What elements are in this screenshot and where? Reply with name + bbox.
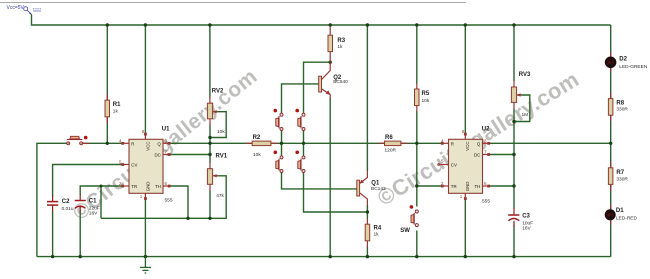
wire: output row U1.Q to U2.R	[169, 142, 442, 144]
svg-text:BC143: BC143	[371, 186, 386, 192]
push button key 4 (bottom-right of grid)	[295, 151, 305, 173]
wire: C3 bottom to ground rail	[513, 226, 515, 257]
push button key 1 (top-left of grid)	[274, 109, 284, 131]
svg-text:RV3: RV3	[519, 72, 531, 78]
svg-text:TH: TH	[474, 184, 480, 189]
svg-text:C1: C1	[89, 199, 97, 205]
wire: U2 TR row	[417, 185, 442, 187]
IC U1 555 timer	[119, 127, 173, 204]
wire: RV3 wiper loop	[514, 95, 530, 122]
svg-text:D2: D2	[619, 57, 627, 63]
wire: U2 DC to timing column	[489, 154, 514, 156]
svg-text:Q1: Q1	[371, 181, 380, 187]
wire: ground bottom rail	[37, 256, 611, 258]
svg-text:GND: GND	[146, 182, 151, 192]
svg-text:10k: 10k	[217, 129, 225, 135]
wire: U2 VCC column	[464, 25, 466, 134]
svg-text:R8: R8	[616, 101, 624, 107]
svg-text:10k: 10k	[253, 152, 261, 158]
svg-text:TR: TR	[131, 184, 137, 189]
svg-text:R6: R6	[385, 135, 393, 141]
resistor R3	[328, 27, 346, 63]
power terminal Vcc=5V	[7, 5, 42, 15]
IC U2 555 timer	[438, 127, 491, 205]
wire: Q1 emitter column to +5V rail	[366, 25, 368, 171]
watermark 1	[69, 65, 262, 225]
svg-text:R1: R1	[113, 102, 121, 108]
wire: U1 TR to C1	[80, 186, 122, 195]
svg-text:1k: 1k	[337, 44, 343, 50]
wire: U1 GND column	[144, 199, 146, 257]
sheet top border line	[0, 2, 466, 4]
resistor R8	[608, 93, 628, 121]
svg-text:R4: R4	[374, 226, 382, 232]
wire: Q1 collector node / R4 column	[366, 205, 368, 219]
svg-text:555: 555	[165, 198, 173, 204]
svg-text:R: R	[451, 141, 454, 146]
svg-text:R3: R3	[337, 38, 345, 44]
svg-text:16V: 16V	[89, 211, 98, 217]
push button key 3 (bottom-left of grid)	[274, 151, 284, 173]
wire: U2 GND column	[464, 199, 466, 257]
svg-text:R7: R7	[616, 170, 624, 176]
push button SW	[400, 205, 418, 234]
push button (reset, top-left)	[67, 136, 89, 145]
capacitor C3 (electrolytic)	[508, 208, 533, 232]
svg-text:1k: 1k	[113, 109, 119, 115]
svg-text:LED-GREEN: LED-GREEN	[619, 64, 648, 70]
wire: left ground loop vertical	[37, 143, 67, 256]
svg-text:R5: R5	[422, 91, 430, 97]
watermark 2	[373, 66, 583, 210]
resistor R1	[105, 94, 121, 124]
wire: U1 VCC column	[144, 25, 146, 134]
junctions on ground bottom rail	[51, 255, 516, 258]
svg-text:555: 555	[482, 199, 490, 205]
svg-text:D1: D1	[616, 208, 624, 214]
svg-text:R2: R2	[253, 135, 261, 141]
junctions on +5V top rail	[106, 23, 516, 26]
wire: RV2 wiper loop	[210, 112, 226, 138]
potentiometer RV1	[207, 154, 227, 200]
svg-text:10k: 10k	[422, 98, 430, 104]
wire: U2 output to LED node	[489, 142, 611, 144]
wire: U2 TH to timing column	[489, 185, 514, 187]
svg-text:DC: DC	[154, 153, 160, 158]
svg-text:CV: CV	[451, 163, 457, 168]
svg-text:47k: 47k	[216, 193, 224, 199]
capacitor C2	[47, 196, 74, 213]
resistor R2	[246, 135, 277, 158]
wire: C1 lower lead to ground rail	[79, 210, 81, 257]
svg-text:C3: C3	[522, 214, 530, 220]
resistor R4	[365, 219, 382, 248]
wire: +5V top rail	[32, 15, 611, 26]
svg-text:RV1: RV1	[216, 154, 228, 160]
junctions on output row	[106, 142, 613, 145]
wire: RV1 bottom lead	[209, 191, 211, 219]
svg-text:U2: U2	[482, 127, 490, 133]
svg-text:TH: TH	[155, 184, 161, 189]
wire: right supply column (D2/R8/R7/D1 string)	[610, 25, 612, 257]
svg-text:U1: U1	[162, 127, 170, 133]
wire: R1 column	[106, 25, 108, 143]
svg-text:0.01u: 0.01u	[62, 206, 74, 212]
svg-text:CV: CV	[131, 163, 137, 168]
svg-text:Q: Q	[477, 141, 481, 146]
svg-text:VCC: VCC	[465, 142, 470, 151]
svg-text:BC540: BC540	[333, 79, 348, 85]
svg-text:TR: TR	[451, 184, 457, 189]
ground symbol	[140, 257, 151, 273]
svg-text:SW: SW	[400, 228, 410, 234]
svg-text:1M: 1M	[522, 112, 529, 118]
potentiometer RV3	[511, 72, 531, 118]
svg-text:1k: 1k	[374, 232, 380, 238]
svg-text:LED-RED: LED-RED	[616, 216, 638, 222]
svg-text:120R: 120R	[385, 148, 397, 154]
svg-text:330R: 330R	[616, 177, 628, 183]
wire: SW bottom to ground rail	[416, 231, 418, 257]
wire: C2 lower lead to ground rail	[52, 211, 54, 257]
wire: RV3 bottom / timing column to C3	[513, 109, 515, 209]
wire: top-left key to Q2 base	[282, 84, 319, 114]
push button key 2 (top-right of grid)	[295, 109, 305, 131]
svg-text:16V: 16V	[522, 226, 531, 232]
svg-text:Vcc=5V: Vcc=5V	[7, 5, 25, 11]
svg-text:GND: GND	[465, 182, 470, 192]
LED D1 (red)	[605, 205, 638, 225]
wire: R5 / trigger column	[416, 25, 418, 84]
capacitor C1 (electrolytic)	[75, 194, 100, 217]
resistor R6	[378, 135, 407, 153]
svg-text:Q: Q	[157, 141, 161, 146]
wire: TR branch down to TH row	[100, 186, 102, 218]
svg-text:VCC: VCC	[146, 142, 151, 151]
resistor R7	[608, 162, 628, 191]
wire: reset row (button to U1 pin R)	[83, 142, 123, 144]
junctions at component nodes	[100, 61, 516, 221]
resistor R5	[415, 83, 430, 112]
wire: U1 DC to column	[169, 154, 210, 156]
svg-text:R: R	[131, 141, 134, 146]
svg-text:C2: C2	[62, 199, 70, 205]
transistor Q1 (PNP BC143)	[357, 171, 386, 206]
wire: RV3 column from rail	[513, 25, 515, 81]
transistor Q2 (NPN BC540)	[319, 62, 348, 98]
wire: TH row (U1 threshold network)	[101, 176, 226, 219]
svg-text:RV2: RV2	[212, 89, 224, 95]
svg-text:DC: DC	[474, 153, 480, 158]
wire: top-right key to Q2 collector node	[304, 62, 331, 113]
wire: key column stubs to output row	[281, 130, 283, 156]
wire: Q2 emitter to ground rail	[329, 98, 331, 257]
wire: R4 bottom to ground rail	[366, 247, 368, 257]
wire: RV2 bottom / DC / RV1 top column	[209, 125, 211, 164]
potentiometer RV2	[207, 89, 225, 136]
wire: bottom-left key to Q1 base	[282, 172, 358, 189]
LED D2 (green)	[605, 52, 648, 73]
wire: bottom-right key to Q1 collector node	[304, 172, 368, 212]
wire: RV2 column from rail	[209, 25, 211, 98]
wire: U1 CV to C2	[53, 165, 123, 197]
svg-text:330R: 330R	[616, 107, 628, 113]
